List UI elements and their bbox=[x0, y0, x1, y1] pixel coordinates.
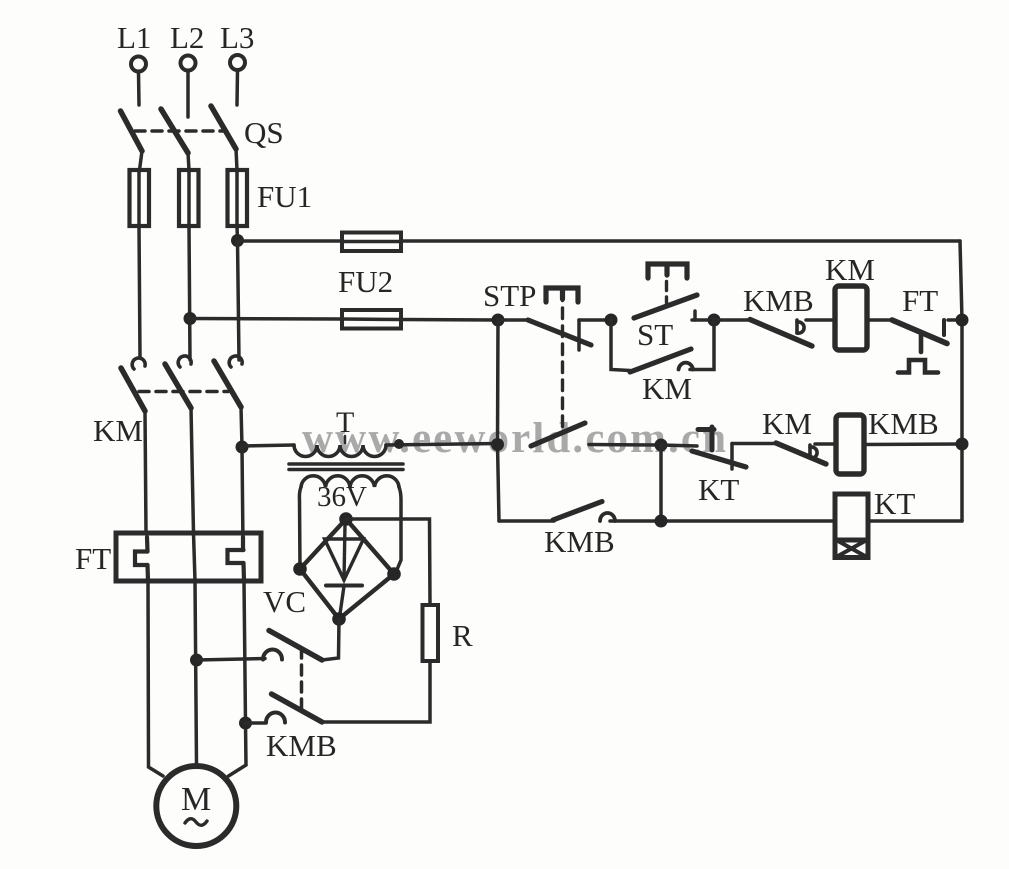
node bridge bottom bbox=[332, 612, 346, 626]
contact KM aux hook bbox=[679, 363, 694, 370]
svg-text:FT: FT bbox=[902, 283, 938, 318]
contact VC fixed terminal hook bbox=[263, 650, 282, 660]
contactor KM main pole 2 bbox=[165, 356, 194, 533]
fuse FU1 pole 1 bbox=[130, 170, 150, 226]
svg-text:FU2: FU2 bbox=[338, 264, 393, 299]
svg-text:VC: VC bbox=[263, 584, 306, 619]
wire row1 to KMB NC bbox=[714, 318, 750, 322]
svg-text:R: R bbox=[452, 618, 473, 653]
wire secondary right leg bbox=[396, 487, 401, 572]
svg-text:T: T bbox=[336, 406, 354, 439]
svg-text:KM: KM bbox=[825, 252, 875, 287]
node junction primary right bbox=[394, 439, 404, 449]
wire top bus right segment bbox=[401, 239, 960, 243]
contact KMB NC blade bbox=[750, 320, 812, 347]
svg-text:QS: QS bbox=[244, 115, 284, 150]
fuse FU2 upper bbox=[342, 233, 401, 252]
svg-text:KMB: KMB bbox=[266, 728, 337, 763]
node bridge top bbox=[339, 512, 353, 526]
wire L3 drop bbox=[235, 70, 239, 105]
wire left rail bbox=[498, 320, 500, 521]
transformer T primary winding bbox=[294, 445, 386, 457]
node bridge right bbox=[387, 567, 401, 581]
node L1 terminal bbox=[117, 20, 151, 72]
svg-text:36V: 36V bbox=[317, 481, 367, 513]
wire R bottom to KMB contact bbox=[322, 661, 430, 722]
wire KT to KM NC row2 bbox=[732, 442, 777, 446]
contact FT thermal element bbox=[898, 334, 938, 373]
svg-text:L3: L3 bbox=[220, 20, 254, 55]
button ST actuator stem dashed bbox=[665, 266, 668, 303]
contact FT NC hook bbox=[942, 320, 946, 335]
wire second bus left segment bbox=[190, 317, 342, 321]
svg-text:KM: KM bbox=[762, 406, 812, 441]
svg-text:KT: KT bbox=[874, 486, 915, 521]
contactor KM main pole 3 bbox=[214, 356, 242, 447]
contact KM aux blade bbox=[630, 349, 691, 372]
button STP actuator stem dashed bbox=[561, 290, 564, 430]
wire top bus left segment bbox=[238, 239, 343, 243]
svg-text:ST: ST bbox=[637, 317, 673, 352]
node junction L2/second bus bbox=[184, 312, 197, 325]
wire KM aux branch right bbox=[690, 320, 714, 370]
wire second bus right segment bbox=[401, 318, 498, 322]
svg-text:L1: L1 bbox=[117, 20, 151, 55]
overload FT heater box bbox=[116, 533, 261, 581]
overload FT heater element pole 3 bbox=[228, 537, 245, 581]
node L3 terminal bbox=[220, 20, 254, 70]
wire right rail bbox=[960, 241, 962, 521]
wire bridge top to R bbox=[346, 519, 430, 605]
svg-text:KM: KM bbox=[642, 371, 692, 406]
wire L3 bus to KM bbox=[238, 241, 240, 360]
button STP NO blade row2 bbox=[531, 423, 585, 446]
wire KMB coil to right rail bbox=[864, 442, 962, 446]
contact KMB blade bbox=[272, 694, 323, 722]
contact KMB NC hook bbox=[797, 320, 804, 333]
contact KT right stub bbox=[730, 444, 734, 470]
wire row3 left bbox=[499, 519, 554, 523]
wire KMB NC to KM coil bbox=[806, 318, 835, 322]
wire row2 junction to KT contact bbox=[661, 445, 697, 446]
wire L3 FT to motor bbox=[229, 581, 247, 776]
fuse FU1 pole 2 bbox=[179, 170, 199, 226]
button ST right stub bbox=[693, 311, 697, 320]
svg-text:KMB: KMB bbox=[544, 524, 615, 559]
wire KM NC to KMB coil bbox=[815, 442, 836, 446]
svg-text:KT: KT bbox=[698, 472, 739, 507]
coil KMB bbox=[836, 415, 864, 474]
node L2 terminal bbox=[170, 20, 204, 71]
wire L2 junction to VC contact bbox=[197, 659, 266, 661]
wire row1 ST to junction bbox=[692, 318, 714, 322]
svg-text:FT: FT bbox=[75, 541, 111, 576]
node junction after ST bbox=[708, 314, 721, 327]
svg-text:STP: STP bbox=[483, 278, 536, 313]
svg-text:L2: L2 bbox=[170, 20, 204, 55]
watermark bbox=[302, 415, 726, 462]
wire KM coil to FT bbox=[867, 318, 892, 322]
transformer T secondary winding bbox=[301, 476, 399, 487]
node bridge left bbox=[293, 562, 307, 576]
contact VC blade bbox=[269, 631, 322, 661]
switch QS pole 3 bbox=[211, 106, 237, 170]
wire L2 FT to motor bbox=[195, 581, 197, 764]
overload FT heater element pole 1 bbox=[135, 537, 148, 581]
switch QS pole 2 bbox=[161, 109, 189, 170]
rectifier VC bridge diamond bbox=[300, 519, 394, 619]
resistor R bbox=[423, 605, 439, 661]
wire row3 mid bbox=[610, 519, 835, 523]
wire KM aux branch left bbox=[611, 320, 630, 371]
wire FT to right rail bbox=[948, 318, 962, 322]
button ST NO blade bbox=[634, 295, 697, 318]
QS linkage dashed bbox=[135, 129, 225, 133]
wire row2 to KT junction bbox=[589, 443, 661, 447]
node junction row2 mid bbox=[655, 439, 668, 452]
svg-text:M: M bbox=[181, 781, 211, 818]
wire L1 drop bbox=[137, 72, 141, 105]
wire L3 junction to KMB contact bbox=[246, 721, 267, 725]
button ST actuator cap bbox=[648, 264, 687, 278]
KM linkage dashed bbox=[139, 390, 228, 394]
contact KT delayed terminal bbox=[698, 427, 714, 450]
svg-text:KM: KM bbox=[93, 413, 143, 448]
wire L3 KM to FT box bbox=[242, 447, 243, 547]
wire row1 rail to STP bbox=[498, 318, 530, 322]
node junction ST bbox=[605, 314, 618, 327]
node junction left rail top bbox=[492, 314, 505, 327]
contact KMB NO row3 hook bbox=[600, 513, 615, 521]
transformer T core bbox=[289, 464, 403, 470]
node junction row2 left bbox=[491, 438, 504, 451]
contact KMB fixed terminal hook bbox=[266, 713, 285, 723]
node junction right rail row1 bbox=[956, 314, 969, 327]
rectifier VC inner diode bbox=[325, 524, 364, 614]
node junction FU1/top bus bbox=[231, 234, 244, 247]
contact KM NC row2 hook bbox=[810, 445, 817, 458]
wire L3 fuse to bus junction bbox=[235, 226, 239, 241]
svg-text:FU1: FU1 bbox=[257, 179, 312, 214]
wire junction to transformer primary bbox=[242, 445, 294, 446]
wire L2 through FT box bbox=[194, 533, 196, 581]
button STP actuator cap bbox=[546, 288, 578, 302]
node junction L2/VC wire bbox=[190, 654, 203, 667]
wire L2 drop bbox=[186, 71, 190, 117]
node junction L3/KMB wire bbox=[239, 717, 252, 730]
node junction right rail row2 bbox=[956, 438, 969, 451]
fuse FU2 lower bbox=[342, 310, 401, 329]
node junction row3 bbox=[655, 515, 668, 528]
VC-KMB linkage dashed bbox=[300, 648, 304, 713]
wire row2 to row3 drop bbox=[659, 445, 663, 521]
wire KT coil to right rail bbox=[868, 519, 962, 523]
wire bridge bottom to VC contact bbox=[322, 619, 339, 660]
svg-text:KMB: KMB bbox=[743, 283, 814, 318]
switch QS pole 1 bbox=[121, 111, 143, 170]
contactor KM main pole 1 bbox=[121, 358, 146, 533]
motor M bbox=[156, 766, 236, 846]
wire L1 fuse to KM bbox=[139, 226, 140, 357]
contact KM NC row2 blade bbox=[776, 443, 826, 464]
wire primary to control rail bbox=[386, 444, 497, 446]
button STP NC blade bbox=[528, 320, 591, 345]
wire secondary left leg bbox=[299, 487, 301, 569]
fuse FU1 pole 3 bbox=[228, 170, 248, 226]
wire L2 fuse to KM bbox=[189, 226, 190, 360]
node junction L3/transformer bbox=[236, 441, 249, 454]
contact KT blade bbox=[692, 451, 746, 467]
svg-text:KMB: KMB bbox=[868, 406, 939, 441]
button STP NC right stub bbox=[577, 320, 581, 350]
wire STP to ST junction bbox=[579, 318, 611, 322]
wire L1 FT to motor bbox=[148, 581, 163, 776]
coil KM bbox=[835, 286, 867, 350]
coil KT with delay box bbox=[835, 494, 868, 558]
contact FT NC blade bbox=[892, 320, 947, 344]
label T bbox=[336, 406, 354, 443]
contact KMB NO row3 blade bbox=[553, 502, 602, 521]
